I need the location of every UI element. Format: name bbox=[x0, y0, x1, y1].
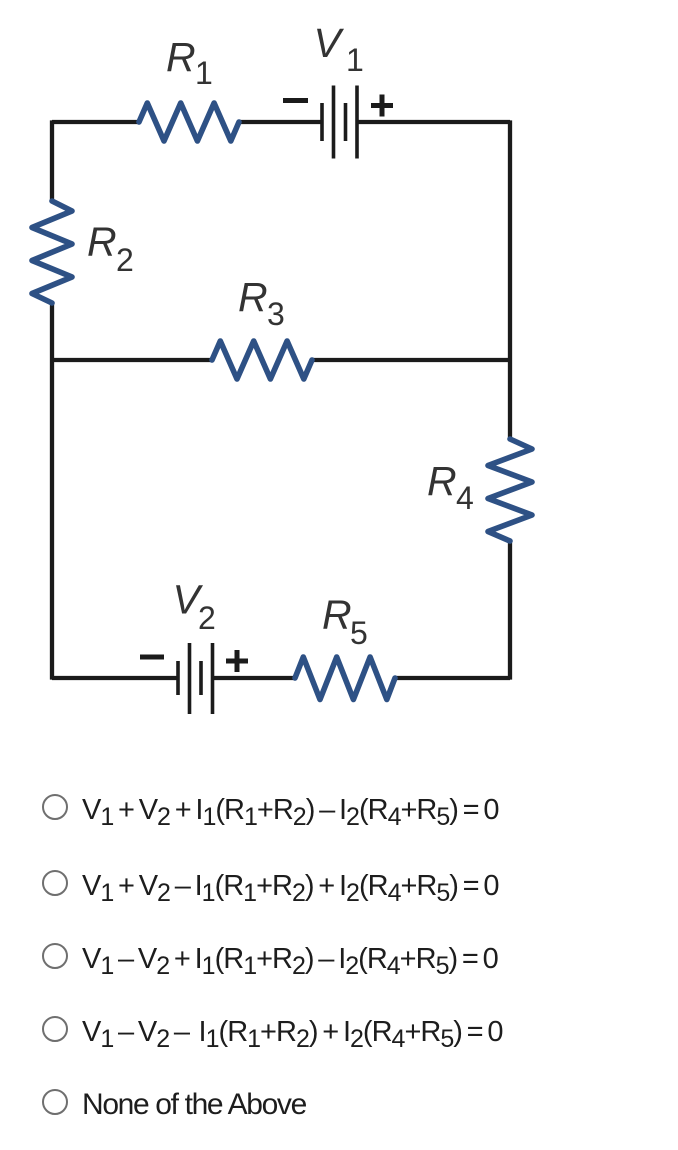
svg-text:V: V bbox=[314, 20, 345, 66]
svg-text:1: 1 bbox=[195, 55, 213, 91]
wire V2 to R5 bbox=[212, 676, 295, 680]
battery V1 (plates) bbox=[322, 86, 357, 159]
wire top-left horizontal bbox=[52, 120, 139, 124]
resistor R1 (zigzag) bbox=[139, 103, 239, 141]
battery V2 minus sign bbox=[140, 655, 164, 660]
wire R5 to bottom-right corner bbox=[395, 676, 510, 680]
svg-text:2: 2 bbox=[198, 600, 216, 636]
resistor R5 (zigzag) bbox=[295, 657, 395, 700]
svg-text:R: R bbox=[166, 34, 196, 80]
option 2 radio + equation bbox=[41, 881, 43, 883]
resistor R2 (zigzag) bbox=[32, 201, 72, 303]
svg-text:R: R bbox=[238, 274, 268, 320]
svg-text:5: 5 bbox=[350, 615, 368, 651]
battery V2 plus sign bbox=[226, 650, 248, 672]
svg-text:4: 4 bbox=[456, 480, 474, 516]
resistor R3 (zigzag) bbox=[212, 341, 312, 379]
option 5 radio "None of the Above" bbox=[41, 1100, 43, 1102]
svg-text:2: 2 bbox=[116, 242, 134, 278]
battery V1 minus sign bbox=[283, 98, 308, 103]
wire V1 to top-right corner bbox=[357, 120, 510, 124]
option 4 radio + equation bbox=[41, 1027, 43, 1029]
wire right side vertical (top-right corner down to R4) bbox=[508, 120, 512, 439]
svg-text:R: R bbox=[322, 592, 352, 638]
resistor R4 (zigzag) bbox=[488, 439, 532, 541]
wire bottom-left horizontal bbox=[52, 676, 178, 680]
svg-text:R: R bbox=[427, 458, 457, 504]
option 3 radio + equation bbox=[41, 954, 43, 956]
option 1 radio + equation bbox=[41, 805, 43, 807]
svg-text:R: R bbox=[87, 219, 117, 265]
wire left side vertical (top-left corner to R2) bbox=[50, 120, 54, 201]
battery V1 plus sign bbox=[371, 95, 393, 117]
wire middle branch left (node to R3) bbox=[52, 358, 212, 362]
wire left side vertical (R2 to bottom-left corner) bbox=[50, 303, 54, 680]
wire R1 to V1 bbox=[239, 120, 322, 124]
wire middle branch right (R3 to right side) bbox=[312, 358, 510, 362]
svg-text:3: 3 bbox=[267, 296, 285, 332]
svg-text:1: 1 bbox=[346, 42, 364, 78]
battery V2 (plates) bbox=[178, 643, 213, 714]
wire right side vertical (R4 to bottom-right corner) bbox=[508, 541, 512, 680]
